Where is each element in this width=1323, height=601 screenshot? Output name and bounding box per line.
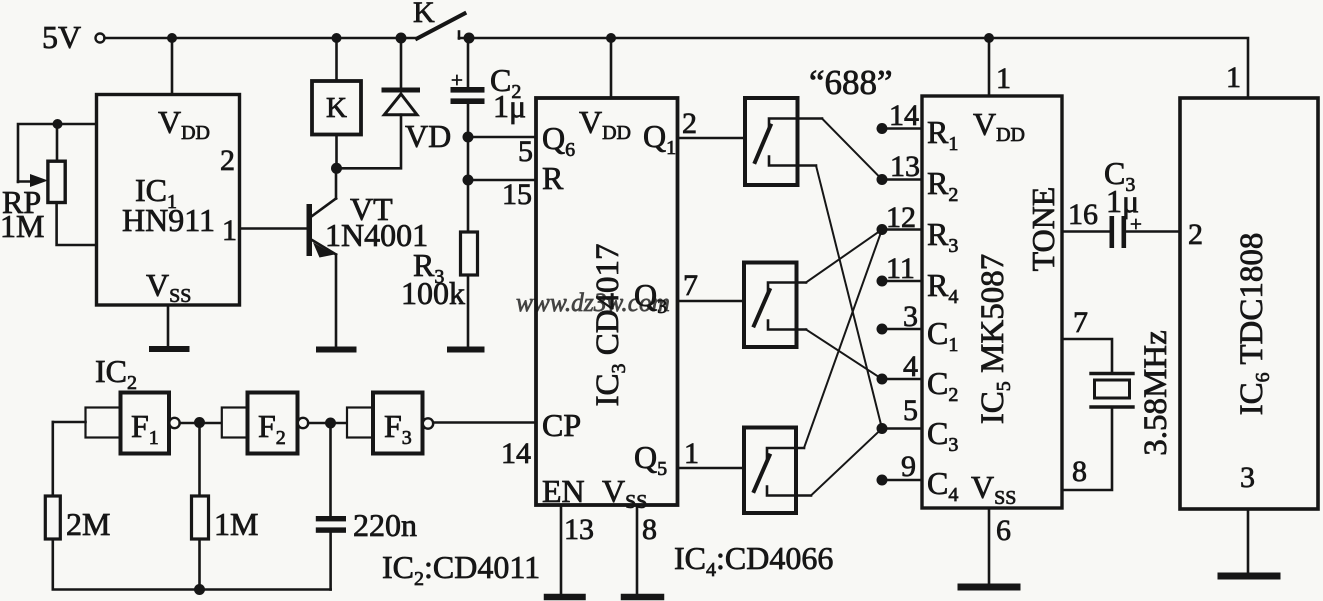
node C4 stub pin9 [877, 450, 923, 486]
svg-text:VDD: VDD [973, 106, 1025, 146]
wire S2 bottom to node C2 [806, 330, 882, 380]
wire IC1 pin1 to VT base [240, 227, 308, 230]
junction R tap [463, 175, 474, 186]
svg-text:1μ: 1μ [1106, 183, 1139, 219]
svg-text:“688”: “688” [809, 63, 893, 102]
relay coil K [312, 81, 361, 135]
svg-text:12: 12 [886, 201, 916, 234]
svg-text:C3: C3 [927, 415, 958, 456]
svg-text:1μ: 1μ [493, 88, 526, 124]
svg-text:14: 14 [889, 99, 919, 132]
gate F1 [86, 393, 180, 454]
node R1 stub pin14 [877, 99, 923, 134]
svg-text:16: 16 [1068, 198, 1098, 231]
svg-text:11: 11 [886, 252, 915, 285]
svg-text:2: 2 [1188, 218, 1203, 251]
svg-text:R3: R3 [927, 216, 958, 257]
wire S3 bottom to node C3 [811, 429, 882, 496]
wire 2M to bottom rail [53, 539, 331, 590]
svg-text:5V: 5V [42, 19, 81, 55]
wire relay to collector node [335, 135, 338, 169]
svg-text:+: + [451, 68, 463, 92]
analog switch S3 [744, 428, 811, 514]
wire IC3 VSS down [636, 505, 639, 594]
wire IC3 Q1 to switch S1 [678, 137, 746, 140]
wire C3 to IC6 pin2 [1126, 230, 1180, 233]
wire S3 top to node R3 [804, 230, 882, 449]
ground VSS IC3 [624, 594, 661, 601]
svg-text:IC3 CD4017: IC3 CD4017 [590, 243, 630, 406]
svg-text:VSS: VSS [146, 267, 191, 307]
svg-text:IC4:CD4066: IC4:CD4066 [674, 540, 833, 581]
resistor R3 100k [401, 232, 478, 346]
wire 1M to bottom rail [198, 539, 201, 590]
svg-text:VD: VD [405, 118, 451, 154]
junction rail-IC1 [167, 33, 177, 43]
svg-text:VSS: VSS [971, 469, 1016, 509]
wire F2 out to F3 [308, 422, 347, 425]
svg-text:R1: R1 [927, 114, 958, 155]
svg-text:9: 9 [901, 450, 916, 483]
op IC6 TDC1808 [1180, 61, 1318, 509]
svg-text:13: 13 [890, 150, 920, 183]
wire IC3 EN down [560, 505, 563, 594]
svg-text:1M: 1M [0, 208, 44, 244]
svg-text:1: 1 [996, 62, 1011, 95]
junction Q6 tap [463, 132, 474, 143]
svg-text:1M: 1M [214, 506, 258, 542]
node C3 stub pin5 [877, 394, 923, 434]
svg-text:VDD: VDD [579, 104, 631, 144]
wire to IC3 pin5 Q6 [468, 136, 536, 139]
gate F3 [347, 393, 433, 454]
crystal 3.58MHz [1091, 330, 1174, 456]
svg-text:IC2: IC2 [95, 353, 137, 394]
wire F1 input [53, 421, 86, 424]
svg-text:Q1: Q1 [643, 118, 676, 159]
svg-text:3: 3 [903, 300, 918, 333]
svg-text:6: 6 [996, 514, 1011, 547]
wire crystal to IC5 pin8 [1062, 407, 1112, 490]
wire 5V rail left segment [105, 37, 419, 40]
ground IC1 [152, 346, 187, 352]
svg-text:IC6 TDC1808: IC6 TDC1808 [1234, 233, 1274, 416]
wire IC3 VDD to rail [610, 38, 613, 98]
wire to IC3 pin15 R [468, 179, 536, 182]
junction rail-C2 [464, 33, 475, 44]
wire rail to relay K [335, 38, 338, 81]
svg-text:13: 13 [564, 513, 594, 546]
analog switch S2 [744, 263, 806, 348]
capacitor C3 1u [1104, 155, 1142, 248]
wire left branch down to 2M [51, 422, 54, 496]
op IC5 MK5087 [922, 62, 1062, 509]
gate F2 [222, 393, 308, 454]
svg-text:3: 3 [1240, 461, 1255, 494]
svg-text:1: 1 [222, 214, 237, 247]
wire F2out branch down to 220n [329, 423, 332, 516]
svg-text:R2: R2 [927, 165, 958, 206]
junction F2 out [325, 418, 336, 429]
junction rail-IC3 VDD [606, 33, 616, 43]
op IC3 CD4017 [501, 98, 699, 513]
node R4 stub pin11 [877, 252, 923, 287]
wire IC3 Q5 to switch S3 [678, 467, 745, 470]
wire S1 top to node R2 [822, 119, 882, 180]
svg-text:C1: C1 [927, 315, 958, 356]
node R2 stub pin13 [877, 150, 923, 185]
wire C2 to R3 [467, 104, 470, 232]
svg-text:K: K [326, 92, 347, 124]
wire IC5 TONE pin16 to C3 [1062, 230, 1110, 233]
wire S2 top to node R3 [806, 230, 882, 283]
svg-text:14: 14 [501, 437, 531, 470]
junction RP top [53, 119, 63, 129]
capacitor C2 1u [451, 38, 527, 124]
wire IC1 pin1 left node [18, 124, 97, 182]
wire IC5 VDD to rail [988, 38, 991, 96]
wire IC6 pin3 down [1247, 509, 1250, 572]
wire IC5 VSS down [988, 508, 991, 583]
wire collector node to diode anode [337, 115, 402, 169]
svg-text:IC2:CD4011: IC2:CD4011 [382, 549, 540, 590]
ground IC5 [961, 584, 1017, 591]
junction rail-diode [396, 33, 407, 44]
svg-text:HN911: HN911 [122, 202, 215, 238]
svg-text:2M: 2M [66, 506, 110, 542]
svg-text:15: 15 [502, 178, 532, 211]
svg-text:EN: EN [542, 473, 585, 509]
svg-text:7: 7 [1073, 306, 1088, 339]
wire F3 out to IC3 CP [433, 421, 536, 424]
wire S1 bottom to node C3 [816, 166, 882, 429]
junction F1 out [194, 417, 205, 428]
resistor 1M [192, 496, 259, 542]
svg-text:2: 2 [682, 107, 697, 140]
junction collector node [331, 163, 342, 174]
svg-text:C2: C2 [927, 365, 958, 406]
svg-text:www.dz3w.com: www.dz3w.com [516, 288, 670, 317]
node C2 stub pin4 [877, 350, 923, 385]
ground VT emitter [319, 347, 354, 353]
junction rail-relay [332, 33, 342, 43]
svg-text:TONE: TONE [1025, 187, 1061, 272]
svg-text:1: 1 [684, 437, 699, 470]
wire 220n to bottom rail [329, 533, 332, 590]
capacitor 220n [316, 507, 417, 543]
svg-text:K: K [413, 0, 435, 29]
ground IC6 [1221, 573, 1277, 580]
node C1 stub pin3 [877, 300, 923, 335]
svg-text:Q6: Q6 [542, 120, 575, 161]
svg-text:7: 7 [683, 269, 698, 302]
svg-text:R4: R4 [927, 267, 958, 308]
potentiometer RP 1M [0, 124, 97, 245]
wire IC1 VSS down [167, 305, 170, 346]
svg-text:2: 2 [220, 144, 235, 177]
svg-text:5: 5 [903, 394, 918, 427]
svg-text:8: 8 [1072, 455, 1087, 488]
wire IC1 VDD to rail [171, 38, 174, 95]
node 5V supply terminal [42, 19, 105, 55]
svg-text:R: R [542, 160, 564, 196]
wire 5V rail right segment to IC6 [459, 38, 1248, 98]
resistor 2M [45, 496, 110, 542]
svg-text:VSS: VSS [602, 473, 647, 513]
node R3 stub pin12 [877, 201, 923, 235]
svg-text:3.58MHz: 3.58MHz [1138, 330, 1174, 456]
svg-text:5: 5 [518, 135, 533, 168]
svg-text:220n: 220n [353, 507, 417, 543]
junction bottom rail 1M [194, 584, 205, 595]
svg-text:100k: 100k [401, 275, 465, 311]
switch K [413, 0, 465, 39]
diode VD [384, 38, 451, 154]
svg-text:1: 1 [1226, 61, 1241, 94]
svg-text:C4: C4 [927, 465, 958, 506]
IC1 HN911 [97, 95, 240, 308]
wire F1out branch down to 1M [198, 423, 201, 496]
wire IC5 pin7 to crystal [1062, 339, 1112, 374]
ground EN [547, 594, 583, 601]
svg-text:CP: CP [542, 407, 581, 443]
transistor VT 1N4001 [307, 168, 429, 346]
wire IC3 Q3 to switch S2 [678, 300, 745, 303]
svg-text:VDD: VDD [158, 104, 210, 144]
svg-text:4: 4 [903, 350, 918, 383]
junction rail-IC5 VDD [984, 33, 994, 43]
svg-text:IC5 MK5087: IC5 MK5087 [975, 254, 1015, 424]
ground R3 [450, 347, 482, 353]
svg-text:8: 8 [642, 513, 657, 546]
wire F1 out to F2 [180, 422, 222, 425]
svg-text:Q5: Q5 [634, 439, 667, 480]
analog switch S1 [745, 98, 822, 185]
